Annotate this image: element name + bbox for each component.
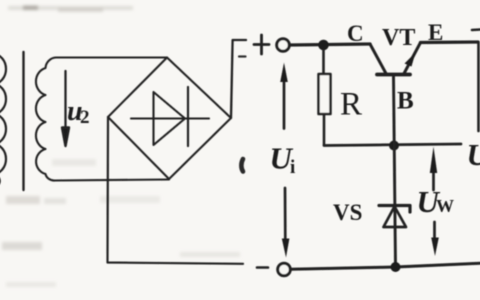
stray ink mark: [241, 159, 243, 172]
resistor R body: [319, 74, 331, 114]
svg-text:W: W: [436, 196, 454, 216]
arrow Ui up: [283, 80, 286, 129]
plus dash at top right (cut): [472, 28, 480, 31]
plus sign: [254, 43, 269, 46]
svg-text:B: B: [397, 88, 414, 115]
svg-text:R: R: [340, 87, 362, 123]
arrow Ui down: [284, 188, 287, 240]
svg-text:VT: VT: [382, 25, 415, 51]
transformer core: [22, 52, 24, 190]
svg-text:i: i: [290, 157, 295, 178]
bridge rectifier outline: [108, 58, 231, 180]
wire bridge left corner to bottom: [108, 117, 244, 264]
diode inside bridge: [131, 117, 209, 119]
arrow Uw down: [433, 222, 436, 240]
svg-text:C: C: [347, 21, 364, 46]
svg-text:E: E: [428, 20, 443, 45]
transformer secondary winding: [36, 58, 169, 181]
arrow Uw up: [432, 170, 435, 190]
svg-text:U: U: [467, 137, 480, 172]
transistor VT emitter with arrow: [404, 43, 421, 74]
svg-text:2: 2: [80, 107, 90, 128]
top rail wire: [290, 44, 370, 45]
transistor VT collector: [370, 44, 386, 74]
transformer primary winding (partial, cut by left edge): [0, 54, 6, 188]
transistor VT base bar: [377, 73, 410, 77]
base wire down through zener to bottom rail: [394, 77, 396, 268]
resistor R leads: [322, 50, 325, 74]
bottom rail wire: [291, 263, 480, 269]
minus sign: [257, 266, 268, 269]
svg-text:VS: VS: [333, 200, 362, 225]
terminal -: [278, 263, 291, 276]
zener VS triangle: [384, 207, 407, 228]
scan artifacts (faint bleed-through smudges): [2, 6, 240, 288]
zener VS cathode bar with hook: [379, 206, 410, 213]
junction dot base node: [389, 141, 399, 151]
junction dot: [318, 40, 329, 51]
node wire (base node to right): [324, 144, 461, 146]
terminal +: [277, 39, 290, 52]
wire bridge right corner to top: [231, 40, 246, 118]
emitter output wire: [421, 40, 479, 44]
arrow u2: [64, 71, 66, 129]
stray tick: [239, 55, 246, 57]
wire right edge down: [477, 42, 480, 131]
junction dot bottom: [391, 262, 401, 272]
